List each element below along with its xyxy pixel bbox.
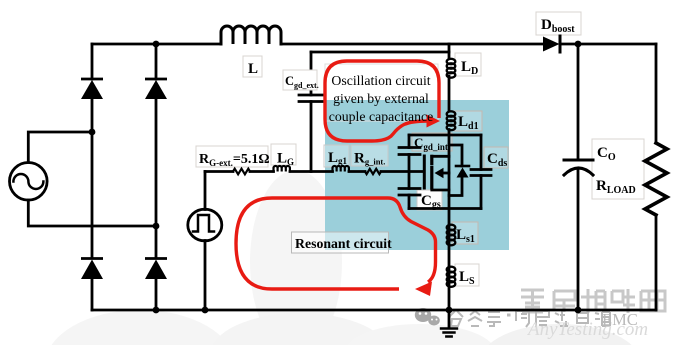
output cap branch wire lower [577, 170, 580, 310]
bridge diode D4 (bottom-right) [145, 259, 167, 280]
Cgd_ext tap wire to drain [311, 51, 449, 54]
gate wire segment 2 [250, 170, 274, 173]
wire right edge lower [655, 215, 658, 310]
boost diode Dboost triangle [543, 37, 560, 52]
wire top rail middle [281, 43, 543, 46]
body diode triangle [457, 168, 469, 178]
capacitor Cgd_ext vertical wires [310, 52, 313, 172]
label box RG-ext [196, 146, 268, 167]
watermark pale blob bottom-center-right [345, 324, 495, 345]
annotation oval resonant circuit [236, 198, 436, 289]
label box Cgs [417, 190, 442, 210]
gate drive vertical wire [204, 172, 207, 210]
AC sine glyph [13, 174, 43, 189]
label box Dboost [536, 12, 581, 35]
AC source top wire [28, 132, 92, 163]
pulse source lower wire [204, 241, 207, 311]
resistor RG-ext zigzag [233, 169, 250, 175]
watermark wechat icon [415, 308, 440, 326]
svg-text:Oscillation circuit: Oscillation circuit [331, 73, 430, 88]
watermark gray text 公众号·风陵渡口话EMC (simulated glyphs) [449, 311, 610, 327]
body diode lower wire [449, 178, 462, 196]
label box Ls1 [452, 222, 478, 244]
MOSFET parasitic region highlight (blue box) [325, 100, 509, 250]
label box LS [455, 264, 479, 286]
label box Cds [484, 147, 508, 168]
pulse source circle [188, 209, 222, 241]
MOSFET drain node horizontal [409, 134, 481, 137]
capacitor Cgd_ext plates [299, 95, 323, 102]
junction node bottom rail / right leg [153, 307, 160, 314]
junction node AC top / left leg [89, 129, 96, 136]
bridge diode D1 (top-left) [81, 79, 103, 99]
label box LD [455, 53, 481, 76]
svg-text:L: L [248, 61, 258, 77]
drain wire between LD and Ld1 [448, 76, 451, 111]
label box Cgd_int [412, 133, 452, 151]
ground bars [441, 329, 457, 337]
MOSFET body arrow line [443, 172, 449, 175]
junction node bottom rail / source-ground [446, 307, 453, 314]
label box LG [271, 144, 296, 165]
MOSFET gate bar [423, 156, 426, 188]
annotation oscillation label box [325, 64, 438, 121]
drain wire to MOSFET and source down to rail [448, 130, 451, 311]
resistor RLOAD zigzag [645, 143, 667, 215]
inductor Ld1 [447, 111, 456, 130]
bridge diode D3 (bottom-left) [81, 259, 103, 280]
drain branch upper [448, 44, 451, 58]
body diode tap top [449, 145, 462, 166]
pulse glyph [193, 215, 214, 232]
capacitor Cds vertical upper [480, 135, 483, 170]
MOSFET drain lead [432, 155, 449, 158]
capacitor Cds plates [471, 170, 491, 176]
ground stub [448, 310, 451, 328]
annotation resonant arrowhead [415, 282, 432, 297]
svg-text:given by external: given by external [333, 91, 429, 106]
capacitor CO curved plate [564, 168, 593, 175]
MOSFET source lead [432, 189, 449, 192]
inductor LD [447, 59, 456, 78]
watermark pale blob bottom-right [480, 324, 640, 345]
svg-text:couple capacitance: couple capacitance [329, 109, 434, 124]
junction node Dboost / CO branch [575, 41, 582, 48]
capacitor Cgs plates [399, 189, 420, 196]
Cgs lower vertical [408, 195, 411, 209]
junction node bottom rail / pulse source [202, 307, 209, 314]
body diode cathode bar [456, 165, 469, 168]
resistor Rg_int zigzag [365, 169, 381, 174]
wire bottom rail [92, 309, 656, 312]
bridge left leg [91, 44, 94, 310]
gate wire segment 4 [349, 170, 365, 173]
annotation oval oscillation circuit [325, 61, 439, 141]
label box Ld1 [454, 111, 482, 131]
watermark pale blob bottom-center [210, 313, 390, 345]
wire top rail right [560, 43, 656, 46]
junction node AC bottom / right leg [153, 223, 160, 230]
gate wire segment 3 [290, 170, 333, 173]
bridge right leg [155, 44, 158, 310]
MOSFET channel dashes [430, 156, 433, 188]
bridge diode D2 (top-right) [145, 79, 167, 99]
junction node top rail / right bridge leg [153, 41, 160, 48]
output cap branch wire upper [577, 44, 580, 160]
capacitor CO top plate [564, 159, 593, 162]
boost diode cathode bar [559, 36, 562, 52]
annotation oval oscillation arrowhead [427, 115, 441, 128]
inductor Lg1 [333, 166, 349, 172]
watermark pale band behind resonant area [250, 170, 342, 345]
label box Rg_int [351, 145, 388, 166]
inductor L [221, 26, 281, 44]
svg-text:AnyTesting.com: AnyTesting.com [526, 319, 648, 340]
AC source bottom wire [28, 200, 156, 226]
inductor LG [274, 166, 290, 172]
watermark gray text 嘉峪检测网 (simulated glyphs) [521, 289, 665, 313]
capacitor Cgd_int plates [399, 148, 420, 155]
gate wire segment 1 [205, 170, 233, 173]
source node horizontal [409, 207, 481, 210]
inductor LS [447, 267, 456, 287]
MOSFET body arrow head [435, 168, 444, 179]
label Cgd_ext box over wire [283, 70, 317, 90]
label box Lg1 [324, 145, 349, 167]
junction node bottom rail / CO branch [575, 307, 582, 314]
capacitor Cgd_int vertical [408, 135, 411, 148]
inductor Ls1 [447, 225, 456, 246]
wire top rail left [92, 43, 221, 46]
label box CO / RLOAD [592, 139, 644, 199]
label box L [243, 56, 262, 77]
capacitor Cds vertical lower [480, 176, 483, 209]
gate wire segment 5 [381, 170, 422, 173]
svg-text:Resonant circuit: Resonant circuit [295, 236, 392, 251]
AC source circle [10, 163, 48, 201]
Cgd/Cgs branch middle vertical [408, 155, 411, 189]
watermark pale blob bottom-left [45, 310, 235, 345]
wire right edge [655, 44, 658, 143]
annotation resonant label box [292, 232, 389, 253]
